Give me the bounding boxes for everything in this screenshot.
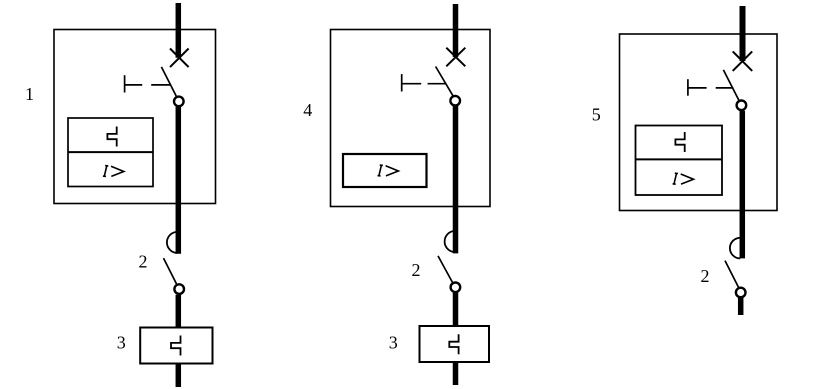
label 3 (feeder 4 box) <box>389 333 398 353</box>
current transformer arc feeder 5 <box>730 238 740 259</box>
relay box feeder 1 <box>68 118 153 187</box>
contact circle feeder 4 <box>450 96 460 106</box>
I> overcurrent label feeder 1 <box>103 166 124 177</box>
contact circle feeder 5 <box>737 101 747 111</box>
switch 2 contact circle feeder 5 <box>736 288 746 298</box>
svg-text:1: 1 <box>25 84 34 104</box>
recloser step symbol box 3 feeder 4 <box>449 334 458 354</box>
recloser step symbol relay 1 <box>107 127 116 147</box>
current transformer arc feeder 1 <box>167 232 178 253</box>
switch 2 contact circle feeder 1 <box>174 284 184 294</box>
disconnector blade feeder 1 <box>161 67 176 96</box>
label 1 <box>25 84 34 104</box>
svg-text:4: 4 <box>303 100 312 120</box>
svg-text:3: 3 <box>117 333 126 353</box>
device box 3 feeder 1 <box>140 328 212 364</box>
label 3 (feeder 1 box) <box>117 333 126 353</box>
wire: feeder 1 below switch 2 <box>176 295 182 328</box>
wire: feeder 4 outgoing <box>453 362 459 385</box>
label 2 (feeder 4 switch) <box>412 260 421 280</box>
wire: incoming feeder 1 <box>176 3 182 58</box>
svg-text:2: 2 <box>412 260 421 280</box>
contact circle feeder 1 <box>174 97 184 107</box>
switch 2 contact circle feeder 4 <box>451 283 461 293</box>
circuit breaker X feeder 5 <box>733 51 753 71</box>
circuit breaker X feeder 1 <box>170 49 189 68</box>
svg-text:5: 5 <box>592 105 601 125</box>
recloser step symbol relay 5 <box>675 132 684 152</box>
disconnector blade feeder 5 <box>723 70 739 101</box>
feeder 1 outline box <box>54 30 216 204</box>
disconnector blade feeder 4 <box>436 67 453 96</box>
current transformer arc feeder 4 <box>445 231 456 252</box>
label 4 <box>303 100 312 120</box>
recloser step symbol box 3 feeder 1 <box>171 336 181 356</box>
label 5 <box>592 105 601 125</box>
feeder 5 outline box <box>620 34 778 211</box>
wire: feeder 5 below breaker <box>740 111 746 259</box>
wire: feeder 4 below breaker <box>453 106 459 254</box>
wire: incoming feeder 5 <box>740 6 746 61</box>
svg-text:2: 2 <box>139 252 148 272</box>
wire: feeder 1 outgoing <box>176 364 182 388</box>
relay box feeder 5 <box>636 126 723 196</box>
wire: feeder 1 below breaker <box>176 107 182 254</box>
feeder 4 outline box <box>331 30 491 207</box>
switch 2 blade feeder 4 <box>438 256 453 283</box>
label 2 (feeder 5 switch) <box>701 266 710 286</box>
I> overcurrent label feeder 4 <box>378 165 399 176</box>
wire: feeder 4 below switch 2 <box>453 293 459 326</box>
svg-text:2: 2 <box>701 266 710 286</box>
circuit breaker X feeder 4 <box>446 48 465 67</box>
wire: incoming feeder 4 <box>453 4 459 57</box>
I> overcurrent label feeder 5 <box>673 173 694 184</box>
label 2 (feeder 1 switch) <box>139 252 148 272</box>
relay box feeder 4 <box>343 154 427 187</box>
svg-text:3: 3 <box>389 333 398 353</box>
switch 2 blade feeder 1 <box>164 258 177 284</box>
wire: feeder 5 outgoing <box>738 298 744 315</box>
device box 3 feeder 4 <box>420 326 490 362</box>
operating linkage feeder 1 <box>125 75 171 92</box>
operating linkage feeder 4 <box>402 74 447 91</box>
switch 2 blade feeder 5 <box>725 261 739 288</box>
operating linkage feeder 5 <box>688 79 733 96</box>
